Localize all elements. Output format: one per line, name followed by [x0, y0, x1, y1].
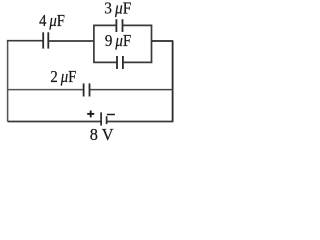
svg-text:4 μF: 4 μF: [39, 11, 65, 30]
wire: inner box top edge left part: [93, 24, 116, 26]
wire: inner box bottom edge left part: [93, 61, 117, 63]
wire: C4 to right edge: [90, 89, 173, 91]
capacitor C1 4uF left plate: [42, 32, 44, 48]
svg-text:8 V: 8 V: [90, 125, 114, 144]
capacitor C3 9uF left plate: [116, 56, 118, 69]
label + sign: [87, 113, 94, 115]
wire: battery to bottom right: [107, 121, 173, 123]
capacitor C2 3uF left plate: [115, 19, 117, 32]
wire: inner box bottom edge right part: [123, 61, 152, 63]
capacitor C3 9uF right plate: [122, 56, 124, 69]
wire: outer left edge: [7, 41, 9, 122]
capacitor C4 2uF left plate: [83, 83, 85, 96]
wire: inner box left edge: [93, 25, 95, 62]
capacitor C1 4uF right plate: [47, 32, 49, 48]
battery BT1 long plate (+): [100, 112, 102, 125]
wire: middle left to C4: [8, 89, 84, 91]
wire: top-left horizontal to C1: [7, 40, 43, 42]
capacitor C4 2uF right plate: [89, 83, 91, 96]
wire: inner box right edge: [151, 25, 153, 63]
wire: outer right edge: [172, 41, 174, 122]
svg-text:9 μF: 9 μF: [105, 31, 131, 50]
wire: inner box top edge right part: [123, 24, 153, 26]
svg-text:2 μF: 2 μF: [50, 67, 76, 86]
wire: C1 to inner box: [48, 40, 94, 42]
capacitor C2 3uF right plate: [122, 19, 124, 32]
svg-text:3 μF: 3 μF: [104, 0, 131, 18]
battery BT1 short plate (-): [106, 116, 108, 124]
wire: bottom left to battery: [8, 121, 102, 123]
label - sign: [107, 114, 115, 116]
wire: box to outer right edge: [152, 40, 174, 42]
